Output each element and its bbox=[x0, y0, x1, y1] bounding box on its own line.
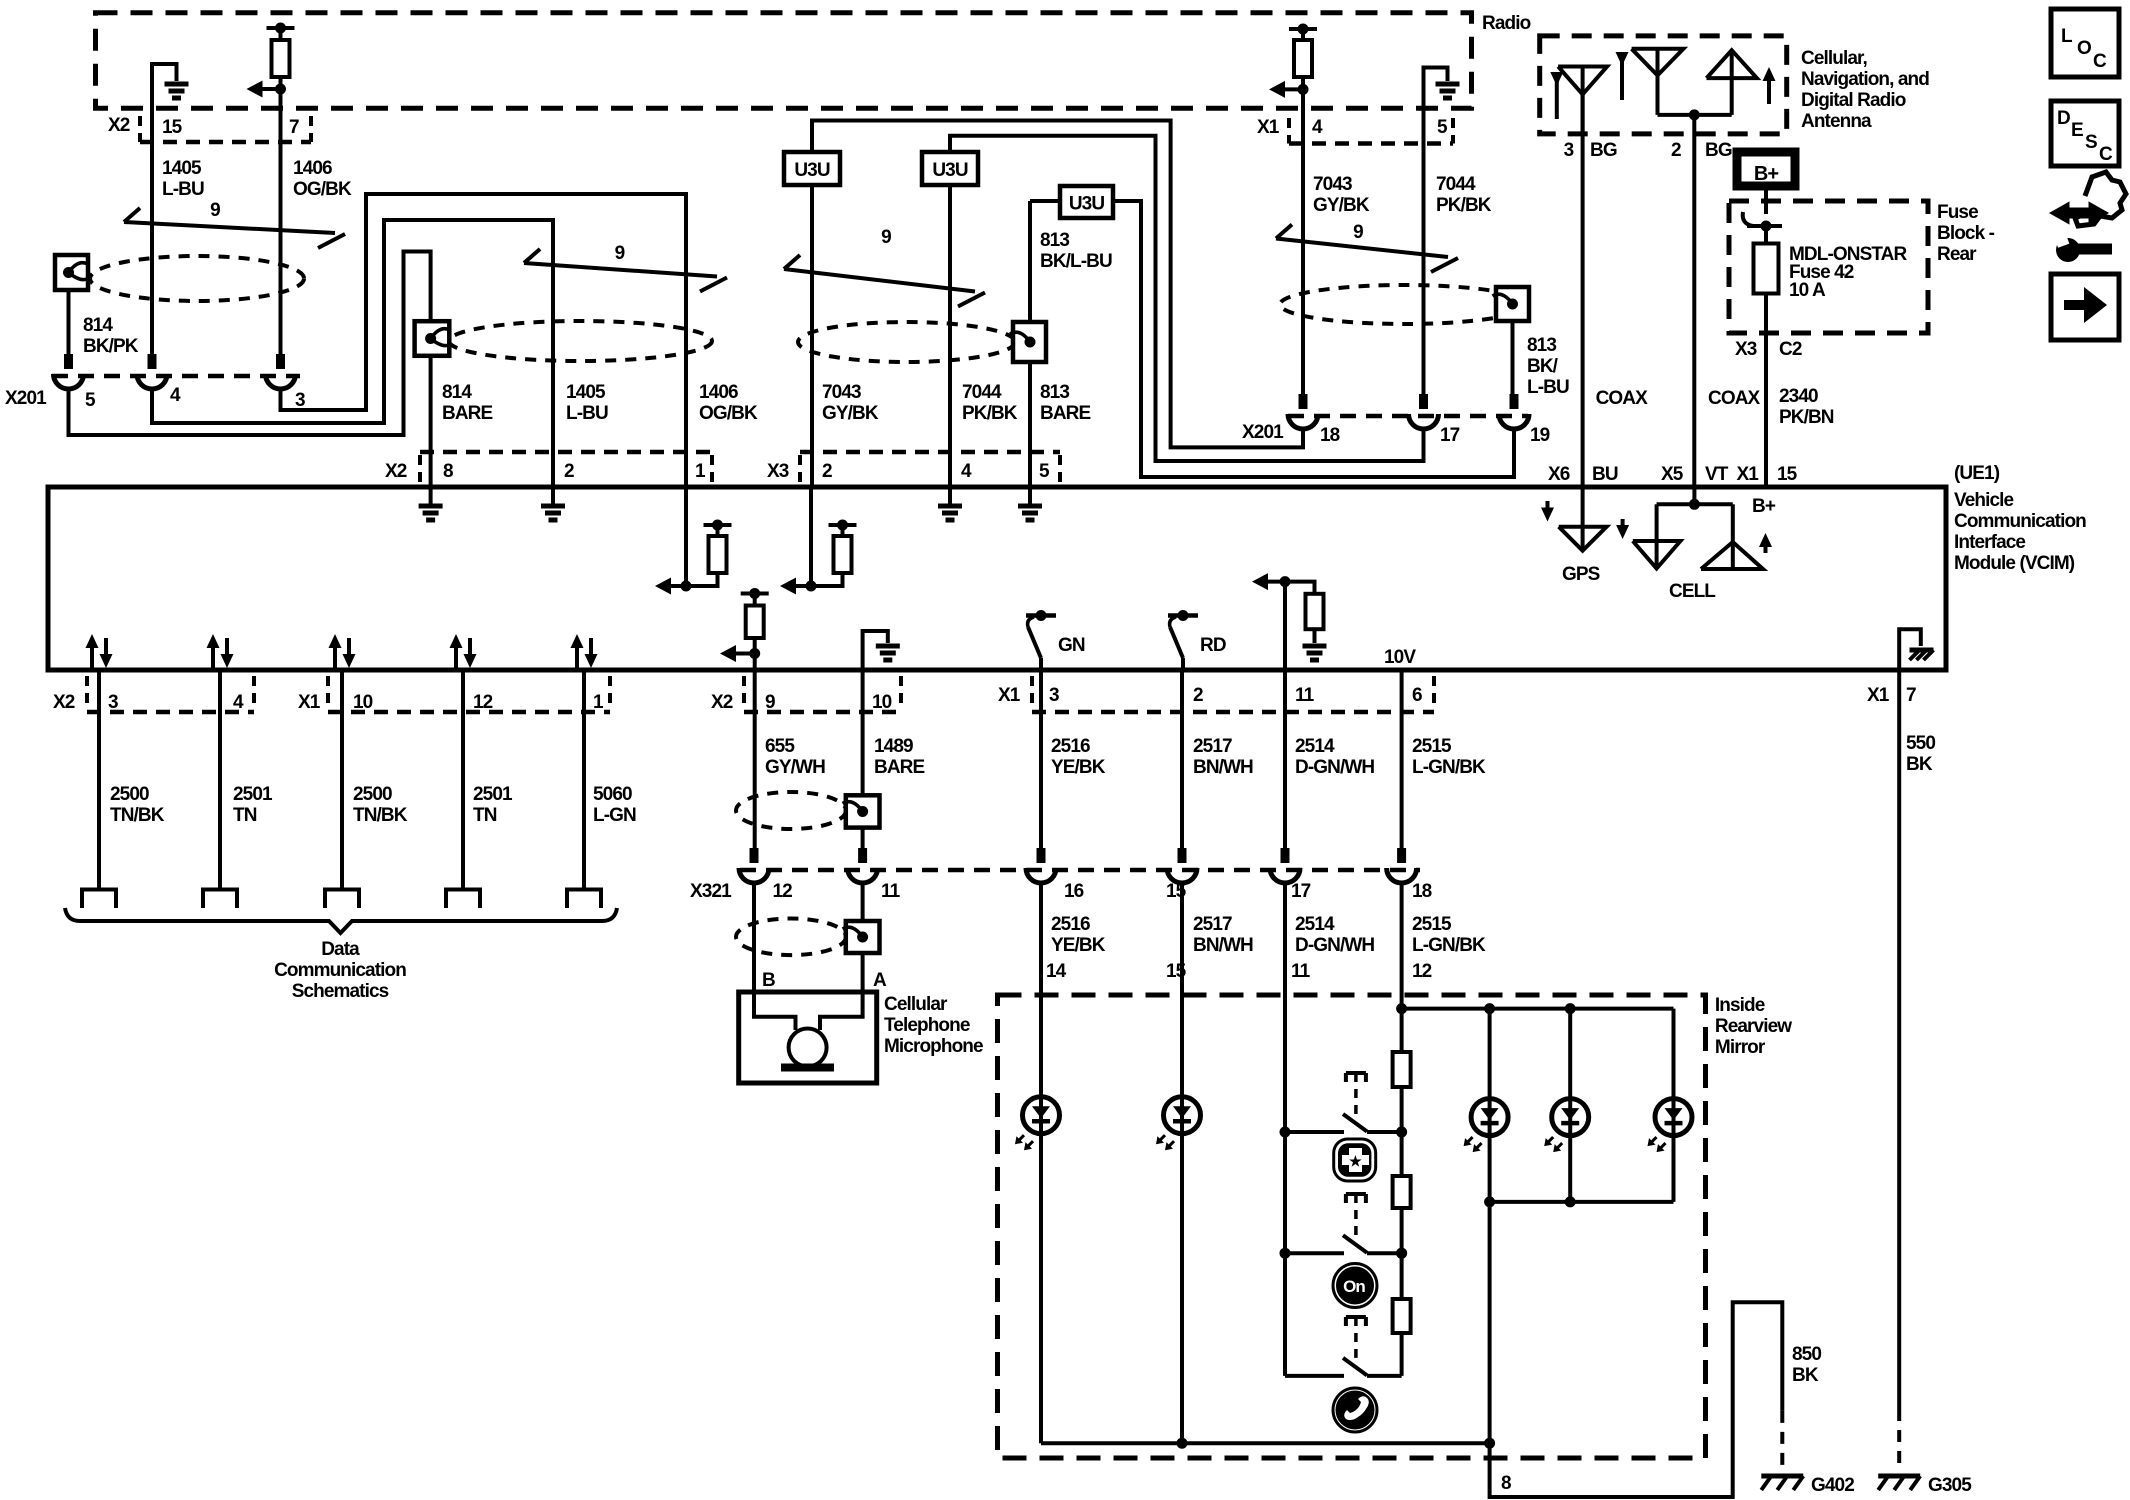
svg-text:X2: X2 bbox=[385, 461, 407, 482]
svg-text:12: 12 bbox=[473, 692, 493, 713]
svg-text:1489: 1489 bbox=[874, 736, 913, 757]
svg-text:Vehicle: Vehicle bbox=[1954, 490, 2014, 511]
svg-text:3: 3 bbox=[108, 692, 118, 713]
svg-text:18: 18 bbox=[1412, 881, 1432, 902]
svg-text:A: A bbox=[873, 970, 887, 991]
svg-text:X3: X3 bbox=[767, 461, 789, 482]
svg-text:Fuse: Fuse bbox=[1937, 202, 1978, 223]
svg-text:1405: 1405 bbox=[162, 158, 202, 179]
svg-text:On: On bbox=[1343, 1277, 1365, 1296]
svg-text:8: 8 bbox=[443, 461, 453, 482]
svg-text:BK: BK bbox=[1906, 754, 1933, 775]
svg-text:15: 15 bbox=[162, 117, 183, 138]
svg-text:C2: C2 bbox=[1779, 339, 1802, 360]
svg-text:3: 3 bbox=[295, 390, 305, 411]
svg-text:BARE: BARE bbox=[442, 403, 492, 424]
svg-text:17: 17 bbox=[1440, 425, 1460, 446]
svg-text:12: 12 bbox=[1412, 961, 1432, 982]
svg-text:655: 655 bbox=[765, 736, 795, 757]
svg-text:U3U: U3U bbox=[1069, 194, 1104, 215]
svg-text:X321: X321 bbox=[690, 881, 732, 902]
svg-text:7: 7 bbox=[1906, 685, 1916, 706]
svg-text:BARE: BARE bbox=[1040, 403, 1090, 424]
svg-text:Schematics: Schematics bbox=[292, 981, 389, 1002]
svg-text:BK/: BK/ bbox=[1527, 356, 1559, 377]
svg-text:Communication: Communication bbox=[274, 960, 406, 981]
svg-text:2501: 2501 bbox=[233, 784, 273, 805]
svg-text:C: C bbox=[2099, 144, 2113, 165]
svg-text:2515: 2515 bbox=[1412, 914, 1452, 935]
svg-text:BN/WH: BN/WH bbox=[1193, 757, 1253, 778]
svg-text:3: 3 bbox=[1564, 140, 1574, 161]
svg-text:5: 5 bbox=[85, 390, 96, 411]
svg-text:BK/PK: BK/PK bbox=[83, 336, 139, 357]
svg-text:COAX: COAX bbox=[1708, 388, 1761, 409]
svg-text:L-BU: L-BU bbox=[162, 179, 204, 200]
svg-text:GPS: GPS bbox=[1562, 564, 1600, 585]
svg-text:B+: B+ bbox=[1754, 163, 1779, 185]
svg-text:7043: 7043 bbox=[822, 382, 861, 403]
svg-text:B: B bbox=[762, 970, 775, 991]
svg-text:Communication: Communication bbox=[1954, 511, 2086, 532]
svg-text:9: 9 bbox=[615, 243, 625, 264]
svg-text:2: 2 bbox=[1193, 685, 1203, 706]
svg-text:16: 16 bbox=[1064, 881, 1084, 902]
svg-text:2: 2 bbox=[1671, 140, 1681, 161]
svg-text:813: 813 bbox=[1040, 230, 1069, 251]
svg-text:Module (VCIM): Module (VCIM) bbox=[1954, 553, 2075, 574]
svg-text:TN/BK: TN/BK bbox=[353, 805, 408, 826]
svg-text:COAX: COAX bbox=[1596, 388, 1649, 409]
svg-text:2516: 2516 bbox=[1051, 914, 1090, 935]
svg-text:1: 1 bbox=[593, 692, 604, 713]
svg-text:E: E bbox=[2071, 120, 2083, 141]
svg-text:X2: X2 bbox=[53, 692, 75, 713]
svg-text:814: 814 bbox=[83, 315, 113, 336]
svg-text:5: 5 bbox=[1437, 117, 1448, 138]
svg-text:4: 4 bbox=[233, 692, 244, 713]
svg-text:Data: Data bbox=[321, 939, 360, 960]
svg-text:Antenna: Antenna bbox=[1801, 111, 1872, 132]
svg-text:D-GN/WH: D-GN/WH bbox=[1295, 935, 1374, 956]
svg-text:X201: X201 bbox=[5, 388, 47, 409]
svg-text:BK: BK bbox=[1792, 1365, 1819, 1386]
svg-text:X1: X1 bbox=[1257, 117, 1280, 138]
svg-text:Rearview: Rearview bbox=[1715, 1016, 1792, 1037]
svg-text:Cellular: Cellular bbox=[884, 994, 948, 1015]
svg-text:GY/BK: GY/BK bbox=[1313, 195, 1370, 216]
svg-text:2501: 2501 bbox=[473, 784, 513, 805]
svg-text:10 A: 10 A bbox=[1789, 280, 1826, 301]
svg-text:L: L bbox=[2061, 26, 2073, 47]
svg-text:X2: X2 bbox=[108, 115, 130, 136]
svg-text:15: 15 bbox=[1166, 961, 1187, 982]
svg-text:G305: G305 bbox=[1928, 1475, 1972, 1496]
svg-text:11: 11 bbox=[1291, 961, 1311, 982]
svg-text:L-GN: L-GN bbox=[593, 805, 636, 826]
svg-text:X1: X1 bbox=[1867, 685, 1890, 706]
svg-text:10: 10 bbox=[872, 692, 892, 713]
svg-text:8: 8 bbox=[1501, 1473, 1511, 1494]
svg-text:GY/BK: GY/BK bbox=[822, 403, 879, 424]
svg-text:PK/BK: PK/BK bbox=[1436, 195, 1492, 216]
svg-text:1: 1 bbox=[695, 461, 706, 482]
svg-text:7: 7 bbox=[289, 117, 299, 138]
svg-text:BN/WH: BN/WH bbox=[1193, 935, 1253, 956]
svg-text:PK/BK: PK/BK bbox=[962, 403, 1018, 424]
svg-text:Interface: Interface bbox=[1954, 532, 2025, 553]
svg-text:BK/L-BU: BK/L-BU bbox=[1040, 251, 1112, 272]
svg-text:Navigation, and: Navigation, and bbox=[1801, 69, 1929, 90]
svg-text:2517: 2517 bbox=[1193, 736, 1232, 757]
svg-text:2514: 2514 bbox=[1295, 914, 1335, 935]
svg-text:11: 11 bbox=[1295, 685, 1315, 706]
svg-text:1405: 1405 bbox=[566, 382, 606, 403]
svg-text:X1: X1 bbox=[298, 692, 321, 713]
svg-text:OG/BK: OG/BK bbox=[293, 179, 352, 200]
svg-text:D-GN/WH: D-GN/WH bbox=[1295, 757, 1374, 778]
svg-text:X3: X3 bbox=[1735, 339, 1757, 360]
svg-text:B+: B+ bbox=[1752, 496, 1776, 517]
svg-text:★: ★ bbox=[1349, 1153, 1362, 1169]
svg-text:9: 9 bbox=[1353, 222, 1363, 243]
svg-text:X1: X1 bbox=[1737, 464, 1760, 485]
svg-text:4: 4 bbox=[170, 385, 181, 406]
svg-text:TN/BK: TN/BK bbox=[110, 805, 165, 826]
svg-text:5: 5 bbox=[1039, 461, 1050, 482]
svg-text:RD: RD bbox=[1200, 635, 1226, 656]
svg-text:L-BU: L-BU bbox=[566, 403, 608, 424]
svg-text:7044: 7044 bbox=[962, 382, 1002, 403]
svg-text:11: 11 bbox=[881, 881, 901, 902]
svg-text:L-GN/BK: L-GN/BK bbox=[1412, 935, 1486, 956]
svg-text:YE/BK: YE/BK bbox=[1051, 935, 1106, 956]
svg-text:GY/WH: GY/WH bbox=[765, 757, 825, 778]
svg-text:10: 10 bbox=[353, 692, 373, 713]
svg-text:GN: GN bbox=[1058, 635, 1085, 656]
svg-text:Rear: Rear bbox=[1937, 244, 1977, 265]
svg-text:G402: G402 bbox=[1811, 1475, 1854, 1496]
svg-text:2500: 2500 bbox=[353, 784, 392, 805]
svg-text:3: 3 bbox=[1049, 685, 1059, 706]
svg-text:4: 4 bbox=[1312, 117, 1323, 138]
svg-text:550: 550 bbox=[1906, 733, 1935, 754]
svg-text:Mirror: Mirror bbox=[1715, 1037, 1766, 1058]
svg-text:Microphone: Microphone bbox=[884, 1036, 983, 1057]
svg-text:Digital Radio: Digital Radio bbox=[1801, 90, 1906, 111]
svg-text:TN: TN bbox=[473, 805, 497, 826]
svg-text:X6: X6 bbox=[1548, 464, 1570, 485]
svg-text:9: 9 bbox=[881, 227, 891, 248]
svg-text:X201: X201 bbox=[1242, 422, 1284, 443]
svg-text:L-BU: L-BU bbox=[1527, 377, 1569, 398]
svg-text:C: C bbox=[2093, 51, 2107, 72]
svg-text:18: 18 bbox=[1320, 425, 1340, 446]
svg-text:TN: TN bbox=[233, 805, 257, 826]
svg-text:(UE1): (UE1) bbox=[1954, 463, 2000, 484]
svg-text:L-GN/BK: L-GN/BK bbox=[1412, 757, 1486, 778]
svg-text:1406: 1406 bbox=[699, 382, 738, 403]
svg-text:PK/BN: PK/BN bbox=[1779, 407, 1834, 428]
svg-text:2500: 2500 bbox=[110, 784, 149, 805]
svg-text:5060: 5060 bbox=[593, 784, 632, 805]
svg-text:2516: 2516 bbox=[1051, 736, 1090, 757]
svg-text:813: 813 bbox=[1040, 382, 1069, 403]
svg-text:Radio: Radio bbox=[1482, 13, 1531, 34]
svg-text:VT: VT bbox=[1705, 464, 1729, 485]
svg-text:2: 2 bbox=[822, 461, 832, 482]
svg-text:BU: BU bbox=[1592, 464, 1618, 485]
svg-text:X1: X1 bbox=[998, 685, 1021, 706]
svg-text:2517: 2517 bbox=[1193, 914, 1232, 935]
svg-text:BG: BG bbox=[1705, 140, 1732, 161]
svg-text:O: O bbox=[2077, 38, 2091, 59]
svg-text:1406: 1406 bbox=[293, 158, 332, 179]
svg-text:BG: BG bbox=[1590, 140, 1617, 161]
svg-text:9: 9 bbox=[210, 200, 220, 221]
svg-text:OG/BK: OG/BK bbox=[699, 403, 758, 424]
svg-text:7044: 7044 bbox=[1436, 174, 1476, 195]
svg-text:U3U: U3U bbox=[932, 160, 967, 181]
svg-text:2515: 2515 bbox=[1412, 736, 1452, 757]
svg-text:12: 12 bbox=[773, 881, 793, 902]
svg-text:19: 19 bbox=[1530, 425, 1550, 446]
svg-text:814: 814 bbox=[442, 382, 472, 403]
svg-text:YE/BK: YE/BK bbox=[1051, 757, 1106, 778]
svg-text:BARE: BARE bbox=[874, 757, 924, 778]
svg-text:15: 15 bbox=[1777, 464, 1798, 485]
svg-text:813: 813 bbox=[1527, 335, 1556, 356]
svg-text:S: S bbox=[2085, 132, 2097, 153]
svg-text:4: 4 bbox=[961, 461, 972, 482]
svg-text:X2: X2 bbox=[711, 692, 733, 713]
svg-text:850: 850 bbox=[1792, 1344, 1821, 1365]
svg-text:9: 9 bbox=[765, 692, 775, 713]
svg-text:6: 6 bbox=[1412, 685, 1422, 706]
svg-text:Inside: Inside bbox=[1715, 995, 1765, 1016]
svg-text:2340: 2340 bbox=[1779, 386, 1818, 407]
svg-text:2514: 2514 bbox=[1295, 736, 1335, 757]
svg-text:17: 17 bbox=[1291, 881, 1311, 902]
svg-text:Cellular,: Cellular, bbox=[1801, 48, 1867, 69]
svg-text:10V: 10V bbox=[1384, 647, 1416, 668]
svg-text:D: D bbox=[2057, 108, 2070, 129]
svg-text:U3U: U3U bbox=[794, 160, 829, 181]
svg-text:Block -: Block - bbox=[1937, 223, 1995, 244]
svg-text:14: 14 bbox=[1046, 961, 1067, 982]
svg-text:Telephone: Telephone bbox=[884, 1015, 970, 1036]
svg-text:CELL: CELL bbox=[1669, 581, 1716, 602]
svg-text:X5: X5 bbox=[1661, 464, 1684, 485]
svg-text:7043: 7043 bbox=[1313, 174, 1352, 195]
svg-text:2: 2 bbox=[564, 461, 574, 482]
